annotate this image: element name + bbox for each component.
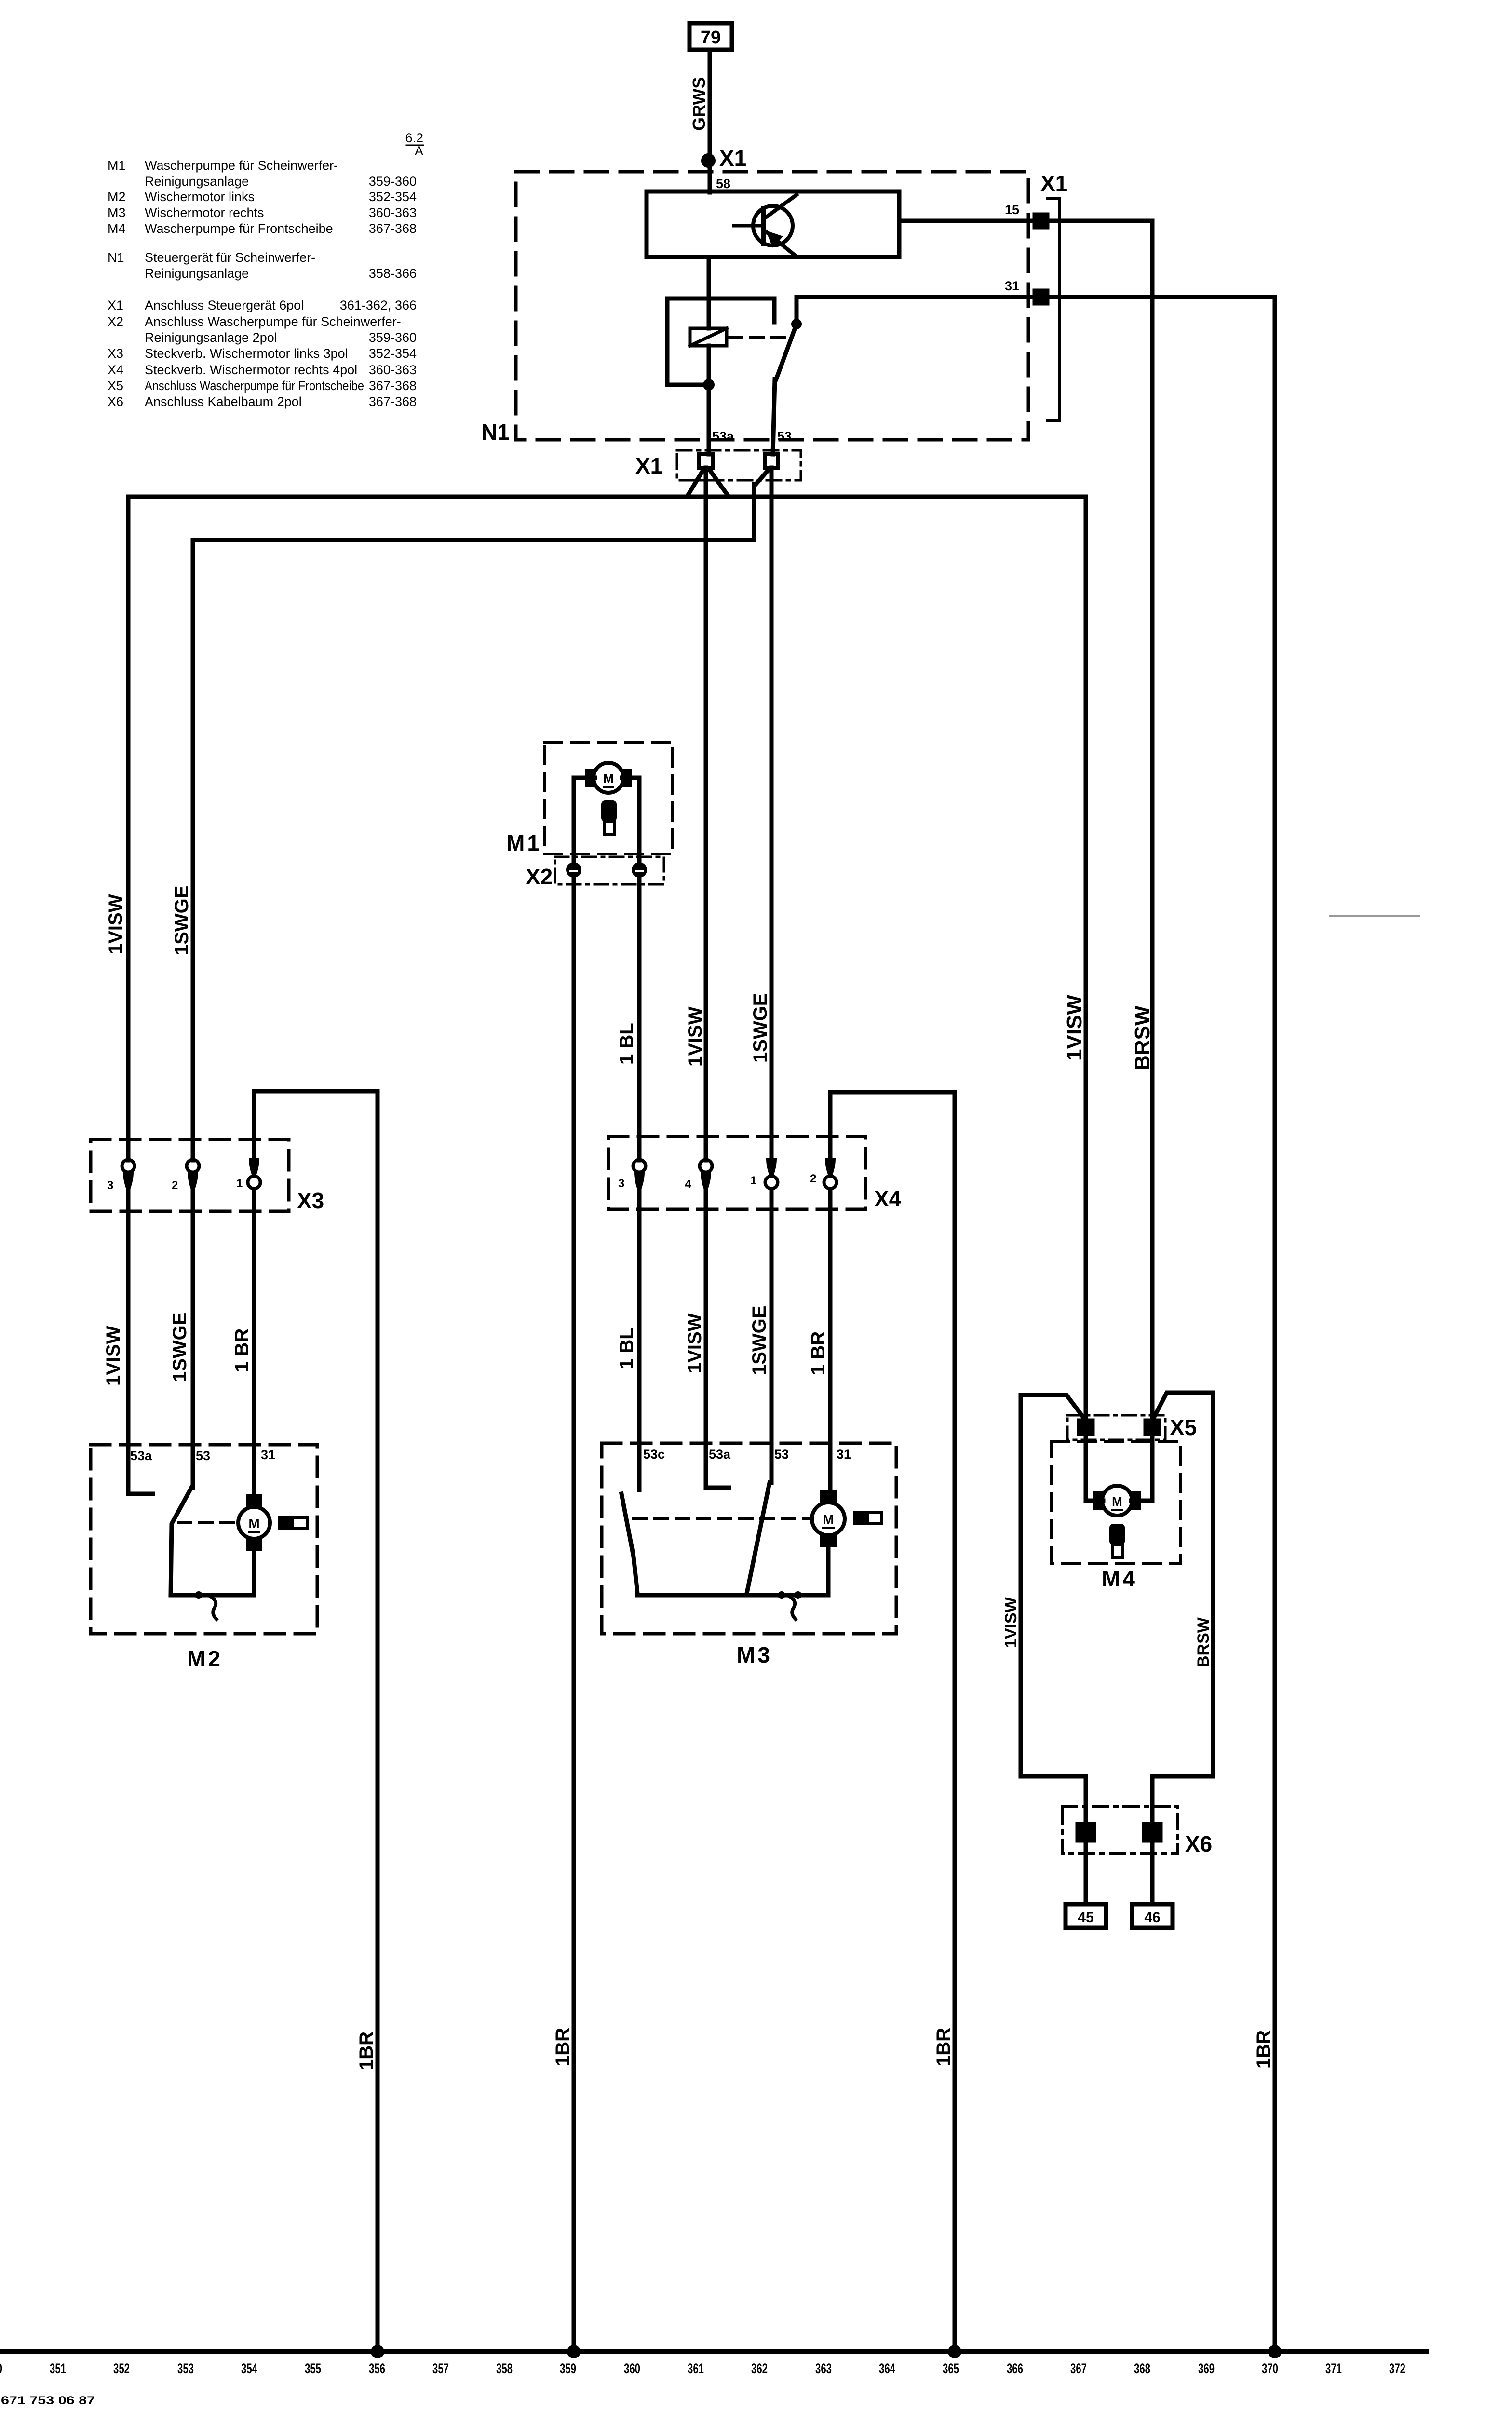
svg-text:45: 45 (1078, 1910, 1093, 1925)
wire X5 pin2 to M4 motor right lead (1131, 1434, 1152, 1501)
M3 terminal 53a stub (706, 1486, 729, 1490)
svg-text:1: 1 (750, 1174, 756, 1187)
svg-text:53a: 53a (130, 1449, 152, 1463)
svg-text:X1: X1 (108, 298, 123, 312)
svg-text:1VISW: 1VISW (684, 1313, 705, 1373)
current track numbers 350-372 (0, 2361, 1405, 2377)
scan fold mark (light line right edge) (1330, 915, 1419, 917)
M3 motor bottom lead (826, 1547, 831, 1595)
svg-text:1VISW: 1VISW (103, 1326, 124, 1386)
junction dot ground wire M1 branch (567, 2345, 580, 2358)
wire GRWS feed from terminal 79 (708, 50, 712, 192)
svg-text:53a: 53a (709, 1447, 731, 1462)
connector X1 right bracket (1047, 199, 1059, 420)
junction dot ground wire M3 branch (948, 2345, 961, 2358)
svg-text:1SWGE: 1SWGE (749, 1306, 770, 1375)
svg-text:364: 364 (879, 2361, 895, 2377)
svg-text:Reinigungsanlage: Reinigungsanlage (145, 266, 249, 281)
wiper motor M3 dashed outline (602, 1443, 896, 1634)
wire 1BR ground run from X3 pin 1 over to bus (254, 1091, 378, 2352)
mechanical link coil to arm (dashed) (729, 336, 787, 339)
electronic module box inside N1 (647, 191, 899, 257)
svg-text:53: 53 (774, 1447, 789, 1462)
pin 15 of connector X1 (right) (1035, 215, 1047, 227)
pin 2 of X5 (1146, 1421, 1159, 1434)
wire 1BR X3 pin1 to M2 motor (252, 1189, 256, 1497)
svg-text:352-354: 352-354 (369, 190, 417, 204)
svg-text:X4: X4 (874, 1186, 902, 1211)
svg-text:M2: M2 (187, 1646, 223, 1671)
wire 1VISW X3 pin3 to M2 (126, 1189, 131, 1494)
svg-text:Wascherpumpe für Frontscheibe: Wascherpumpe für Frontscheibe (145, 221, 333, 236)
pin 53 of connector X1 (bottom) (765, 454, 778, 468)
bus wire 1VISW horizontal (128, 495, 1086, 499)
pin 1 of X6 (1078, 1824, 1094, 1841)
pin 1 of X2 (566, 862, 581, 878)
svg-text:367-368: 367-368 (369, 394, 417, 409)
junction dot ground wire M2 branch (371, 2345, 384, 2358)
svg-text:M2: M2 (108, 190, 126, 204)
svg-text:53a: 53a (712, 429, 734, 444)
wire 1SWGE X3 pin2 to M2 (191, 1189, 195, 1488)
pin 3 of X4 (633, 1160, 646, 1191)
terminal 46 (1132, 1904, 1173, 1928)
wire M1 left lead to X2 (574, 778, 595, 863)
ground bus line 31 (0, 2349, 1426, 2354)
svg-text:1 BL: 1 BL (616, 1023, 637, 1065)
svg-text:M1: M1 (506, 830, 542, 855)
svg-text:363: 363 (815, 2361, 832, 2377)
svg-text:367-368: 367-368 (369, 221, 417, 236)
pump symbol of M4 (1109, 1524, 1125, 1558)
svg-text:BRSW: BRSW (1194, 1617, 1213, 1667)
sheet reference underline (406, 145, 423, 146)
connector X1 bottom bracket (dashed) (677, 450, 801, 480)
wiper motor M2 dashed outline (91, 1445, 317, 1634)
svg-text:355: 355 (305, 2361, 321, 2377)
svg-text:Anschluss Steuergerät 6pol: Anschluss Steuergerät 6pol (145, 298, 304, 312)
wire 1SWGE X4 pin1 to M3 (769, 1189, 774, 1483)
svg-text:6.2: 6.2 (405, 131, 423, 145)
svg-text:1BR: 1BR (933, 2028, 954, 2066)
wire BRSW from X1-15 down to X5 (1047, 221, 1152, 1421)
wire M1 right lead to X2 (622, 778, 639, 863)
bus wire 1SWGE horizontal (193, 538, 754, 542)
svg-text:31: 31 (261, 1448, 275, 1462)
svg-text:M: M (248, 1516, 259, 1531)
svg-text:M3: M3 (108, 205, 126, 220)
svg-text:350: 350 (0, 2361, 2, 2377)
svg-text:367: 367 (1070, 2361, 1087, 2377)
motor symbol of M1 (585, 763, 632, 793)
M3 park position hook (790, 1597, 796, 1619)
svg-text:360-363: 360-363 (369, 205, 417, 220)
svg-text:354: 354 (241, 2361, 257, 2377)
svg-text:2: 2 (172, 1179, 178, 1192)
svg-text:2: 2 (810, 1172, 816, 1185)
svg-text:671 753 06 87: 671 753 06 87 (1, 2394, 95, 2407)
wire arm pivot up to X1 pin 31 (796, 297, 1035, 324)
wire 53 center drop to X4 pin 1 (769, 468, 774, 1158)
svg-text:X2: X2 (526, 864, 553, 889)
wire X6 pin2 to terminal 46 (1150, 1841, 1155, 1904)
M2 thermal fuse symbol (278, 1516, 307, 1530)
svg-text:X4: X4 (108, 363, 123, 377)
control unit N1 dashed outline (516, 172, 1028, 440)
pin 3 of X3 (122, 1160, 135, 1191)
wire junction to pin 53a (707, 385, 711, 454)
relay contact fixed stub (772, 298, 777, 322)
M3 bottom wire (637, 1593, 828, 1598)
svg-text:3: 3 (618, 1177, 624, 1190)
svg-text:Steuergerät für Scheinwerfer-: Steuergerät für Scheinwerfer- (145, 250, 315, 265)
svg-text:352: 352 (113, 2361, 130, 2377)
svg-text:M4: M4 (1102, 1566, 1137, 1591)
wire 1VISW left drop to X3 pin 3 (126, 497, 131, 1160)
connector X6 bracket (dashed) (1062, 1806, 1178, 1854)
wire 1BL X4 pin3 to M3 (637, 1189, 642, 1490)
svg-text:1VISW: 1VISW (105, 894, 126, 954)
svg-text:Anschluss Wascherpumpe für Fro: Anschluss Wascherpumpe für Frontscheibe (145, 379, 364, 393)
terminal 45 (1066, 1904, 1106, 1928)
M2 bottom wire (171, 1593, 254, 1598)
svg-text:368: 368 (1134, 2361, 1150, 2377)
svg-text:357: 357 (432, 2361, 449, 2377)
svg-text:362: 362 (751, 2361, 768, 2377)
washer pump M4 dashed outline (1052, 1441, 1180, 1563)
svg-text:369: 369 (1198, 2361, 1215, 2377)
svg-text:X3: X3 (108, 346, 123, 361)
connector X4 dashed outline (608, 1137, 865, 1209)
M2 mechanical link (dashed) (178, 1521, 236, 1524)
svg-text:371: 371 (1325, 2361, 1342, 2377)
wire module output to X1 pin 15 (899, 219, 1035, 223)
svg-text:1BR: 1BR (356, 2032, 377, 2070)
pin 1 of X3 (248, 1158, 260, 1189)
M3 park contact dots (778, 1591, 802, 1599)
junction dot ground wire N1 branch (1268, 2345, 1282, 2358)
svg-text:1SWGE: 1SWGE (171, 886, 192, 955)
svg-text:353: 353 (177, 2361, 194, 2377)
wire 1VISW right drop to X5 (1084, 497, 1088, 1421)
svg-text:1 BR: 1 BR (231, 1328, 253, 1372)
svg-text:361: 361 (688, 2361, 704, 2377)
svg-text:M: M (1112, 1494, 1122, 1509)
pin 1 of X4 (765, 1158, 778, 1189)
svg-text:Reinigungsanlage: Reinigungsanlage (145, 174, 249, 189)
legend component list (108, 158, 417, 409)
svg-text:370: 370 (1262, 2361, 1278, 2377)
svg-text:1: 1 (236, 1177, 243, 1190)
svg-text:X6: X6 (108, 394, 123, 409)
svg-text:N1: N1 (108, 250, 124, 265)
svg-text:Wischermotor links: Wischermotor links (145, 190, 255, 204)
svg-text:79: 79 (701, 27, 721, 48)
junction dot below coil (703, 379, 715, 391)
svg-text:15: 15 (1005, 203, 1019, 217)
svg-text:1 BR: 1 BR (808, 1331, 829, 1375)
svg-text:1SWGE: 1SWGE (750, 993, 771, 1063)
wire 1SWGE left drop to X3 pin 2 (191, 540, 195, 1160)
svg-text:Steckverb. Wischermotor rechts: Steckverb. Wischermotor rechts 4pol (145, 363, 357, 377)
svg-text:361-362, 366: 361-362, 366 (340, 298, 417, 312)
relay arm pivot dot (791, 319, 802, 329)
sheet reference 6.2/A (405, 131, 423, 158)
svg-text:X6: X6 (1185, 1831, 1212, 1856)
svg-text:M1: M1 (108, 158, 126, 173)
M2 terminal 53a stub (128, 1492, 153, 1496)
wire 1 BR X4 pin2 to M3 motor (828, 1189, 833, 1494)
svg-text:351: 351 (50, 2361, 66, 2377)
svg-text:M: M (823, 1512, 834, 1527)
svg-text:Reinigungsanlage 2pol: Reinigungsanlage 2pol (145, 330, 277, 345)
M2 park position hook (211, 1597, 216, 1619)
wire 1BR ground run from X4 pin 2 over to bus (830, 1092, 955, 2352)
pin 4 of X4 (700, 1160, 712, 1191)
wire 1VISW X4 pin4 to M3 (704, 1189, 708, 1488)
svg-text:X2: X2 (108, 314, 123, 329)
pin 2 of X3 (187, 1160, 199, 1191)
svg-text:358: 358 (496, 2361, 513, 2377)
M3 switch arm 1 (621, 1494, 637, 1593)
wire coil bottom to junction (707, 346, 711, 385)
svg-text:53: 53 (777, 429, 792, 444)
svg-text:358-366: 358-366 (369, 266, 417, 281)
connector X3 dashed outline (91, 1139, 289, 1211)
svg-text:M4: M4 (108, 221, 126, 236)
svg-text:X5: X5 (1170, 1415, 1197, 1440)
svg-text:366: 366 (1007, 2361, 1023, 2377)
wire 1BR from X1-31 to ground bus (1047, 297, 1275, 2352)
pin 2 of X6 (1144, 1824, 1161, 1841)
fanout diagonals from pin 53a to bus 1VISW (688, 469, 728, 496)
wire 53a center drop to X4 pin 4 (704, 468, 708, 1160)
svg-text:31: 31 (1005, 279, 1019, 293)
washer pump M1 dashed outline (544, 742, 673, 854)
svg-text:365: 365 (943, 2361, 959, 2377)
svg-text:359: 359 (560, 2361, 576, 2377)
svg-text:1VISW: 1VISW (1063, 995, 1086, 1061)
wire 1BR from X2 pin1 to ground bus (572, 878, 576, 2352)
wire arm to pin 53 (773, 379, 775, 454)
svg-text:X1: X1 (1040, 171, 1067, 196)
M3 motor symbol (812, 1490, 845, 1547)
wire 1VISW outer loop (left) to X6 (1021, 1395, 1086, 1824)
svg-text:58: 58 (716, 176, 730, 191)
svg-text:Steckverb. Wischermotor links: Steckverb. Wischermotor links 3pol (145, 346, 348, 361)
svg-text:X1: X1 (719, 146, 746, 171)
svg-text:M: M (603, 772, 614, 786)
svg-text:X3: X3 (297, 1188, 324, 1213)
M2 motor bottom lead (252, 1551, 256, 1595)
svg-text:1VISW: 1VISW (685, 1006, 706, 1067)
svg-text:X5: X5 (108, 379, 123, 393)
M3 switch arm 2 (747, 1483, 769, 1593)
svg-text:N1: N1 (481, 420, 510, 445)
transistor symbol inside module (734, 195, 796, 257)
svg-text:Anschluss Kabelbaum 2pol: Anschluss Kabelbaum 2pol (145, 394, 302, 409)
connector X2 bracket (dashed) (555, 857, 664, 884)
svg-text:X1: X1 (635, 453, 662, 478)
wire X5 pin1 to M4 motor left lead (1086, 1434, 1103, 1501)
terminal 79 (689, 23, 732, 50)
fanout diagonal from pin 53 to bus 1SWGE (754, 469, 769, 540)
M2 switch arm (171, 1488, 191, 1595)
motor symbol of M4 (1093, 1486, 1141, 1516)
svg-text:Wascherpumpe für Scheinwerfer-: Wascherpumpe für Scheinwerfer- (145, 158, 338, 173)
svg-text:1BR: 1BR (1253, 2030, 1274, 2069)
svg-text:46: 46 (1144, 1910, 1160, 1925)
wire BRSW outer loop (right) to X6 (1152, 1393, 1213, 1824)
svg-text:360-363: 360-363 (369, 363, 417, 377)
pin 53a of connector X1 (bottom) (699, 454, 713, 468)
svg-text:Anschluss Wascherpumpe für Sch: Anschluss Wascherpumpe für Scheinwerfer- (145, 314, 401, 329)
pin 2 of X2 (632, 862, 647, 878)
relay contact arm (776, 324, 796, 379)
svg-text:4: 4 (685, 1178, 691, 1191)
svg-text:1VISW: 1VISW (1002, 1597, 1020, 1648)
M3 thermal fuse symbol (853, 1511, 882, 1525)
M3 mechanical link (dashed) (634, 1517, 810, 1520)
relay coil (690, 328, 727, 346)
svg-text:1 BL: 1 BL (616, 1327, 637, 1369)
svg-text:M3: M3 (737, 1642, 772, 1667)
svg-text:GRWS: GRWS (689, 77, 709, 131)
svg-text:1BR: 1BR (552, 2028, 573, 2066)
junction node X1 on GRWS wire (701, 153, 715, 168)
svg-text:372: 372 (1389, 2361, 1405, 2377)
M2 park contact dot (195, 1591, 202, 1599)
svg-text:359-360: 359-360 (369, 330, 417, 345)
coil return loop wire (667, 298, 774, 385)
wire 1BL X2 pin2 down to X4 pin 3 (637, 878, 642, 1160)
svg-text:359-360: 359-360 (369, 174, 417, 189)
svg-text:3: 3 (107, 1179, 113, 1192)
connector X5 bracket (dashed) (1067, 1415, 1165, 1440)
svg-text:367-368: 367-368 (369, 379, 417, 393)
svg-text:53: 53 (196, 1449, 210, 1463)
svg-text:53c: 53c (643, 1447, 665, 1462)
svg-text:1SWGE: 1SWGE (169, 1313, 190, 1382)
M2 motor symbol (238, 1494, 270, 1551)
wire transistor output to relay coil (707, 257, 711, 328)
pump symbol of M1 (601, 800, 617, 834)
svg-text:BRSW: BRSW (1131, 1005, 1154, 1070)
wire X6 pin1 to terminal 45 (1084, 1841, 1088, 1904)
pin 1 of X5 (1079, 1421, 1093, 1434)
pin 2 of X4 (824, 1158, 837, 1189)
svg-text:352-354: 352-354 (369, 346, 417, 361)
pin 31 of connector X1 (right) (1035, 291, 1047, 303)
svg-text:31: 31 (837, 1447, 851, 1462)
svg-text:360: 360 (624, 2361, 640, 2377)
svg-text:356: 356 (369, 2361, 385, 2377)
svg-text:Wischermotor rechts: Wischermotor rechts (145, 205, 264, 220)
